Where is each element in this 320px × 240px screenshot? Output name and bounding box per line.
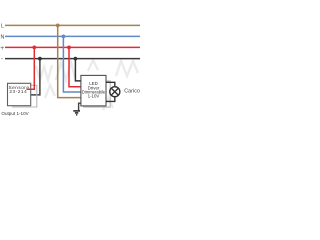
svg-text:23-214: 23-214: [9, 89, 27, 94]
wire blue drop to driver: [63, 36, 81, 92]
svg-text:Output 1-10V: Output 1-10V: [1, 111, 29, 116]
wire red drop to sensor: [27, 47, 35, 89]
node dot on - (sensor): [38, 57, 42, 61]
bus N (blue): [5, 35, 140, 37]
wire black drop to driver: [75, 59, 81, 81]
lamp (Carico load): [110, 87, 120, 97]
wire red drop to driver: [69, 47, 82, 86]
node dot on L: [56, 24, 60, 28]
bus L (brown): [5, 24, 140, 26]
svg-text:Carico: Carico: [124, 88, 140, 94]
svg-text:N: N: [1, 34, 5, 40]
svg-text:-: -: [1, 56, 3, 63]
sensor ghost box: [12, 85, 37, 107]
node dot on + (sensor): [32, 46, 36, 50]
wire brown drop to driver: [58, 25, 82, 97]
svg-text:1-10V: 1-10V: [88, 93, 100, 98]
sensor box: [8, 83, 31, 105]
ground: [73, 111, 80, 115]
node dot on + (driver): [67, 46, 71, 50]
wire black drop to sensor: [31, 59, 40, 95]
earth wire: [79, 103, 81, 110]
watermark: [36, 60, 138, 110]
wire lamp to driver (bottom): [106, 97, 115, 102]
node dot on - (driver): [74, 57, 78, 61]
svg-text:L: L: [1, 23, 4, 29]
bus - (black): [5, 58, 140, 60]
bus + (red): [5, 46, 140, 48]
wire driver to lamp (top): [106, 82, 115, 86]
node dot on N: [62, 35, 66, 39]
svg-text:+: +: [0, 45, 4, 52]
driver ghost box: [83, 81, 110, 107]
LED driver box U1: [81, 75, 106, 106]
